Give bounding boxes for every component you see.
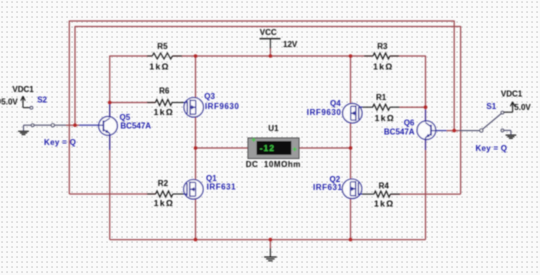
svg-text:R4: R4 bbox=[379, 182, 390, 191]
svg-text:Key = Q: Key = Q bbox=[476, 144, 508, 153]
svg-text:R1: R1 bbox=[376, 93, 387, 102]
svg-text:R5: R5 bbox=[157, 42, 168, 51]
svg-text:1kΩ: 1kΩ bbox=[154, 198, 174, 208]
svg-text:Q6: Q6 bbox=[404, 119, 415, 128]
svg-text:IRF631: IRF631 bbox=[207, 183, 237, 192]
svg-text:12V: 12V bbox=[283, 40, 298, 49]
svg-text:BC547A: BC547A bbox=[384, 127, 415, 136]
svg-text:1kΩ: 1kΩ bbox=[373, 62, 393, 72]
svg-text:Q3: Q3 bbox=[204, 92, 215, 101]
svg-text:IRF9630: IRF9630 bbox=[307, 108, 342, 117]
svg-text:1kΩ: 1kΩ bbox=[149, 61, 169, 71]
svg-text:Q4: Q4 bbox=[330, 99, 341, 108]
svg-text:S2: S2 bbox=[37, 96, 47, 105]
svg-text:5.0V: 5.0V bbox=[1, 98, 18, 107]
svg-text:Q1: Q1 bbox=[206, 174, 217, 183]
svg-text:DC 10MOhm: DC 10MOhm bbox=[246, 160, 301, 169]
svg-text:IRF631: IRF631 bbox=[313, 183, 343, 192]
svg-text:1kΩ: 1kΩ bbox=[374, 198, 394, 208]
svg-text:BC547A: BC547A bbox=[120, 122, 151, 131]
svg-text:1kΩ: 1kΩ bbox=[375, 113, 395, 123]
svg-text:Key = Q: Key = Q bbox=[44, 138, 76, 147]
svg-text:R3: R3 bbox=[377, 42, 388, 51]
svg-text:R6: R6 bbox=[159, 87, 170, 96]
svg-text:R2: R2 bbox=[158, 179, 169, 188]
svg-text:1kΩ: 1kΩ bbox=[154, 107, 174, 117]
svg-text:VDC1: VDC1 bbox=[12, 85, 34, 94]
svg-text:S1: S1 bbox=[486, 102, 496, 111]
svg-text:VDC1: VDC1 bbox=[501, 90, 523, 99]
svg-text:IRF9630: IRF9630 bbox=[205, 102, 240, 111]
svg-text:-12: -12 bbox=[260, 143, 275, 153]
svg-text:5.0V: 5.0V bbox=[514, 103, 531, 112]
svg-text:U1: U1 bbox=[268, 124, 279, 133]
svg-text:VCC: VCC bbox=[260, 28, 277, 37]
